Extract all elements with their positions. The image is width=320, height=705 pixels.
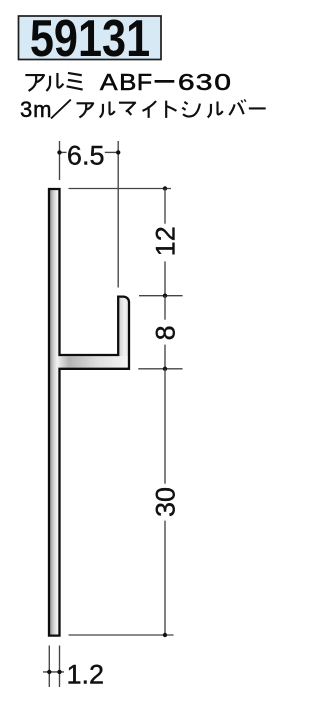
part number box: [19, 11, 162, 69]
svg-text:59131: 59131: [30, 11, 150, 69]
product name line 1: アルミABF-630: [25, 73, 82, 91]
kana ル (line1): [46, 73, 63, 91]
kana ア (line1): [25, 75, 44, 91]
profile arm shading: [60, 356, 128, 367]
extension line right (bar right face): [59, 646, 61, 688]
svg-text:6: 6: [178, 69, 195, 95]
reference line at bar bottom: [69, 634, 174, 636]
svg-text:30: 30: [151, 487, 181, 517]
dim line segments: [60, 151, 67, 153]
kana ル (line2): [100, 101, 115, 117]
profile lip shading: [119, 298, 127, 356]
text ABF: [100, 69, 152, 95]
dimension 30: [164, 369, 166, 635]
dash in ABF-630: [155, 80, 175, 83]
svg-text:12: 12: [151, 226, 181, 256]
dim dots 1.2: [47, 670, 51, 674]
reference line at arm bottom: [138, 368, 182, 370]
profile outline: [49, 189, 129, 636]
svg-text:1.2: 1.2: [67, 660, 105, 690]
profile cross-section fill: vertical bar: [49, 189, 129, 636]
kana ー: [249, 103, 266, 114]
svg-text:F: F: [137, 70, 152, 96]
svg-text:6.5: 6.5: [67, 140, 105, 170]
reference line at lip top: [139, 295, 183, 297]
dimension 6.5: [60, 141, 119, 288]
dimension 1.2: [43, 646, 64, 688]
svg-text:A: A: [100, 69, 118, 95]
kana イ: [143, 101, 157, 118]
kana マ: [119, 103, 135, 115]
reference line at bar top: [69, 188, 172, 190]
kana ル (line2 second): [208, 101, 223, 117]
kana ミ (line1): [67, 73, 83, 90]
extension line right (lip left face): [117, 141, 119, 288]
kana バ: [229, 99, 246, 115]
dim dots 6.5: [57, 150, 61, 154]
extension line left (bar left face): [48, 646, 50, 688]
kana ト: [166, 101, 176, 118]
svg-text:8: 8: [151, 325, 181, 340]
dimension 8: [164, 296, 166, 369]
kana ア (line2): [77, 103, 94, 117]
svg-text:3m: 3m: [20, 97, 52, 122]
dim line with outside tails: [43, 671, 64, 673]
fullwidth slash: [51, 100, 71, 119]
svg-text:3: 3: [196, 69, 213, 95]
svg-text:0: 0: [214, 69, 231, 95]
kana シ: [182, 102, 200, 117]
text 630: [178, 69, 231, 95]
dimension 12: [164, 189, 166, 296]
extension line left (bar right face): [59, 141, 61, 180]
svg-text:B: B: [119, 70, 136, 96]
